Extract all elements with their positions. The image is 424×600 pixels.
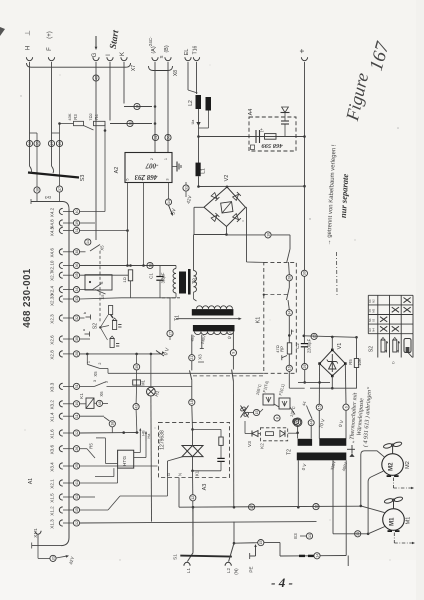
capacitor C2 (301, 343, 308, 345)
wire branch F down (59, 124, 61, 187)
wire hook to circle X1.4 (63, 415, 73, 417)
svg-text:X3.6: X3.6 (50, 445, 55, 455)
wire row X3.4 right (80, 465, 158, 467)
svg-text:17: 17 (250, 505, 254, 509)
terminal L1 (184, 562, 190, 565)
wire row X2.1 right (80, 482, 118, 484)
wire pin4 down (143, 183, 145, 266)
junction R4 elbow (104, 129, 107, 132)
long wire to K1 box (108, 372, 264, 374)
collector arc to bus (63, 202, 69, 210)
K1 contact 1 (287, 249, 290, 262)
circle 31 (183, 185, 189, 191)
svg-text:X4.5: X4.5 (50, 226, 55, 236)
svg-text:468 230-001: 468 230-001 (22, 268, 33, 328)
svg-text:R5: R5 (348, 359, 353, 365)
svg-text:⊥: ⊥ (25, 30, 32, 36)
wire below C2 (303, 347, 305, 364)
table icon plug 2 (393, 340, 397, 352)
svg-text:10: 10 (75, 402, 79, 406)
terminal circle X3.4 (73, 463, 79, 469)
table X marks (404, 298, 411, 303)
hook X1.6 (59, 430, 62, 436)
wire fan chain (260, 409, 263, 413)
HTG left wire elbow (96, 437, 105, 439)
svg-text:X1.3: X1.3 (50, 519, 55, 529)
resistor R4 (94, 121, 106, 125)
svg-text:1: 1 (105, 381, 109, 383)
terminal circle on F branch (56, 140, 62, 146)
T3 core bar thick (179, 272, 186, 294)
svg-text:S1: S1 (173, 554, 178, 560)
capacitor in A4 (255, 130, 257, 143)
svg-text:35: 35 (35, 142, 39, 146)
wire row X4.8 right (80, 222, 95, 224)
circle 14 under A2 (165, 199, 171, 205)
svg-text:38: 38 (75, 250, 79, 254)
svg-text:X2.33: X2.33 (50, 294, 55, 306)
flow arrow on L2 wire (196, 122, 200, 126)
gate lead down (167, 461, 169, 476)
T2 primary bar right (319, 438, 346, 446)
V1 corner squares (318, 362, 321, 365)
tap line to T2 (320, 555, 346, 557)
slant row X1.2 up (108, 496, 120, 510)
tap 230V stub (201, 335, 203, 349)
junction right pole bottom (233, 506, 236, 509)
svg-text:T2: T2 (287, 449, 293, 455)
circle 42 (133, 404, 139, 410)
wire branch H down (36, 133, 38, 187)
wire hook to circle X2.33 (63, 298, 73, 300)
wire I down (109, 62, 111, 121)
S2 hub (99, 326, 101, 328)
wire to circle 20 (38, 557, 50, 559)
svg-text:M3: M3 (372, 308, 376, 312)
hook X4.5 (59, 227, 62, 233)
terminal circle X1.6 (73, 430, 79, 436)
svg-text:(+): (+) (47, 31, 53, 39)
circle 23 on I wire (127, 120, 133, 126)
start direction arrow (95, 36, 97, 48)
svg-text:A1: A1 (28, 478, 34, 484)
svg-text:K1: K1 (256, 317, 262, 324)
wire M1 return diag (368, 527, 385, 534)
lower rail right b (298, 381, 330, 383)
choke L2 core bar 2 (206, 97, 212, 111)
wire V2 top rail (199, 185, 305, 187)
terminal circle X3.6 (73, 446, 79, 452)
arrow HB (139, 430, 141, 439)
dot in relay box (89, 281, 91, 283)
left bus vertical (68, 209, 70, 538)
junction plus rail (303, 185, 306, 188)
wire T3 right top (193, 235, 195, 271)
svg-text:£43: £43 (45, 196, 51, 200)
K1 wire 2 (288, 281, 290, 288)
circle 18 mid-left (109, 421, 115, 427)
hook X2.7 (59, 272, 62, 278)
svg-text:40: 40 (94, 76, 98, 80)
svg-text:26: 26 (58, 142, 62, 146)
hook X2.3 (59, 315, 62, 321)
wire V1 top stub (331, 337, 333, 350)
wire X6 to T1 (107, 385, 193, 387)
wire row X4.5 right (80, 230, 128, 232)
hook X2.33 (59, 296, 62, 302)
svg-text:39: 39 (75, 221, 79, 225)
svg-text:X6: X6 (99, 391, 104, 397)
junction pin4 rail (142, 264, 145, 267)
resistor R3 (74, 121, 84, 125)
tick at left end (31, 543, 33, 549)
wire V2 left corner (194, 206, 204, 208)
wire row X4.2 right (80, 211, 105, 213)
K1 wire 5 (288, 354, 290, 365)
svg-text:20: 20 (51, 556, 55, 560)
table icon socket (404, 339, 411, 353)
svg-text:X1.5: X1.5 (50, 493, 55, 503)
circle 34 K1 chain (286, 310, 292, 316)
wire hook to circle X2.1 (63, 482, 73, 484)
svg-text:37: 37 (58, 187, 62, 191)
wire V2 left down (193, 207, 195, 234)
neutral jumper (233, 522, 235, 544)
terminal H (26, 57, 32, 60)
bottom rail of block (122, 297, 177, 299)
wire coil right (94, 402, 96, 404)
terminal circle X1.5 (73, 494, 79, 500)
junction top rail b (135, 353, 138, 356)
resistor R5 bridge (354, 359, 358, 368)
contact row X4.6 (90, 245, 100, 252)
wire X1.1 down (37, 534, 39, 546)
svg-text:34: 34 (75, 288, 79, 292)
svg-text:3: 3 (166, 178, 170, 180)
tap line bottom (280, 555, 314, 557)
wire pin5 down (127, 183, 129, 266)
circle 10 (265, 232, 271, 238)
circle row X4.6 aux (85, 239, 91, 245)
svg-text:12: 12 (75, 521, 79, 525)
wire row X2.10 rail (80, 265, 176, 267)
wire V2 right down (246, 207, 248, 262)
svg-text:6: 6 (344, 406, 348, 408)
circle below S3 left (34, 187, 40, 193)
circle 50 on B wire (165, 134, 171, 140)
circle 15 at 70V (316, 404, 322, 410)
V2 diode TR (232, 192, 240, 200)
X5 out corner (107, 369, 109, 374)
aux relay drop2 (136, 370, 138, 380)
T3 winding right (194, 271, 197, 276)
coil diagonal (86, 398, 94, 408)
V2 diode BL (211, 213, 219, 221)
wire circle48 right (103, 402, 108, 404)
triac through wire (192, 429, 194, 445)
leader dash-dot of note (336, 252, 339, 295)
svg-text:30: 30 (75, 337, 79, 341)
svg-text:33: 33 (356, 532, 360, 536)
svg-text:34: 34 (288, 311, 292, 315)
T1 arrow line (176, 318, 239, 320)
S2 plug 2 tip (113, 318, 117, 321)
mains line 1 corner up (178, 478, 180, 508)
svg-text:16: 16 (288, 366, 292, 370)
svg-text:12: 12 (191, 496, 195, 500)
wire 16 junction (290, 432, 298, 434)
terminal circle X2.6 (73, 336, 79, 342)
contact below relay box (95, 290, 106, 295)
svg-text:PE: PE (249, 566, 254, 572)
aux relay drop3 (135, 385, 138, 403)
svg-text:A4: A4 (248, 109, 254, 116)
X3 tick (198, 361, 204, 363)
wire V2 bottom rail (194, 234, 227, 236)
wire T3 left top (175, 266, 177, 269)
wire V3 to K2 (258, 433, 260, 435)
slant to circle 18 (104, 417, 110, 421)
circle 38 T2 (293, 418, 299, 424)
F1 symbol (266, 397, 271, 402)
arrow Ha (145, 433, 147, 442)
hook X1.2 (59, 507, 62, 513)
junction K2 net (296, 432, 299, 435)
motor M2 brushes (387, 475, 392, 477)
thermal switch F1 (263, 394, 274, 405)
svg-text:V2: V2 (224, 175, 230, 182)
junction V1 bottom (331, 387, 334, 390)
terminal I (107, 57, 113, 60)
svg-text:HTG: HTG (122, 456, 128, 466)
collector tick (30, 199, 32, 204)
K1 wire (288, 262, 291, 275)
wire row X1.6 right (80, 432, 139, 435)
wire pin3 down (168, 183, 170, 199)
cable dashes bottom (299, 555, 305, 557)
svg-text:40: 40 (75, 210, 79, 214)
snubber down 3 (220, 461, 222, 470)
PE symbol (255, 546, 257, 556)
svg-text:36: 36 (75, 264, 79, 268)
svg-text:E3: E3 (293, 533, 298, 539)
wire below circle29 (304, 370, 306, 383)
stub circle18 down (111, 427, 113, 433)
svg-text:18: 18 (190, 400, 194, 404)
wire hook to circle X1.5 (63, 496, 73, 498)
hook X1.3 (59, 520, 62, 526)
wire below S3 left (36, 193, 38, 201)
T2 sec tap 0V (297, 460, 299, 507)
wire circle27 up (169, 298, 171, 331)
resistor in A4 (265, 134, 277, 140)
K1 contact 2 (287, 288, 290, 301)
svg-text:10K: 10K (357, 358, 362, 366)
wire T3 left bottom (175, 293, 177, 298)
V2 center varistor (221, 202, 233, 213)
wire M2 feed up (360, 455, 362, 506)
S2 plug position 1 (109, 306, 113, 315)
svg-text:G: G (166, 473, 171, 476)
S2 plug 1 pin (111, 315, 113, 319)
svg-text:41: 41 (75, 481, 79, 485)
motor M2 linkage (392, 478, 394, 489)
svg-text:X1.6: X1.6 (50, 429, 55, 439)
hook X2.6 (59, 336, 62, 342)
tap stub tick (200, 348, 204, 350)
svg-text:24: 24 (135, 105, 139, 109)
svg-text:X4.6: X4.6 (50, 248, 55, 258)
dashed box K2 (260, 428, 287, 441)
wire row X2.4 right (80, 289, 93, 291)
terminal circle on H (26, 140, 32, 146)
HTG box (118, 450, 134, 468)
svg-text:29: 29 (303, 365, 307, 369)
circle 16 bold (294, 419, 300, 425)
svg-text:S: S (159, 55, 164, 58)
wire V3 left (245, 433, 252, 435)
wire I to A (110, 123, 152, 125)
V2 diode BR (232, 213, 240, 221)
svg-text:7Ω2: 7Ω2 (88, 112, 93, 120)
svg-text:(A): (A) (151, 46, 157, 54)
svg-text:X4.2: X4.2 (50, 207, 55, 217)
junction neutral tap (233, 542, 236, 545)
X5 contact (87, 364, 100, 368)
svg-text:1: 1 (164, 158, 168, 160)
S3 contact hook F (52, 166, 54, 173)
wire V3 up (244, 421, 246, 434)
svg-text:X7: X7 (131, 65, 137, 71)
wire F2 out (290, 407, 295, 415)
wire L2 down (198, 109, 200, 163)
svg-text:28: 28 (288, 276, 292, 280)
wire R3 to R4 slant (84, 126, 94, 131)
svg-text:18: 18 (111, 422, 115, 426)
dashed box K1 (264, 262, 297, 373)
wire gate up (167, 476, 169, 496)
junction I-A (154, 122, 157, 125)
svg-text:03: 03 (372, 318, 376, 322)
svg-text:44: 44 (310, 421, 314, 425)
hook X3.6 (59, 446, 62, 452)
junction lower rail (303, 381, 306, 384)
svg-text:V1: V1 (337, 343, 343, 350)
svg-text:48: 48 (98, 401, 102, 405)
svg-text:15: 15 (75, 508, 79, 512)
wire 0V down (345, 410, 347, 438)
wire V2 bottom to circle10 (227, 234, 265, 236)
S1 pole drop (192, 507, 194, 553)
svg-text:b: b (83, 312, 87, 314)
T1 core bar bottom (193, 325, 235, 331)
choke L2 core bar 1 (196, 95, 202, 109)
wire row X3.2 right (80, 403, 86, 405)
svg-text:R4: R4 (94, 114, 99, 120)
svg-text:L2: L2 (226, 568, 231, 574)
svg-text:12: 12 (314, 505, 318, 509)
wire hook to circle X3.3 (63, 385, 73, 387)
svg-text:H: H (26, 46, 32, 50)
circle 33 (355, 531, 361, 537)
wire row X2.7 right (80, 274, 128, 276)
svg-text:14: 14 (86, 240, 90, 244)
wire M2 return corner (368, 471, 383, 481)
hook X3.3 (59, 383, 62, 389)
wire hook to circle X4.8 (63, 222, 73, 224)
svg-text:5: 5 (126, 178, 130, 180)
junction R1 top (129, 264, 132, 267)
wire to gate (120, 495, 168, 497)
svg-text:(+: (+ (259, 128, 264, 132)
wire row X2.33 rail (80, 298, 122, 299)
svg-text:47Ω: 47Ω (275, 345, 280, 353)
junction left at lower rail (318, 381, 321, 384)
arrow a at S2 (86, 316, 91, 318)
K1 wire 4 (288, 316, 290, 343)
wire V1 feed (304, 336, 357, 338)
wire EL down (187, 62, 189, 90)
gate lead (168, 457, 184, 461)
K1 wire 3 (288, 300, 289, 310)
wire M2 feed corner (361, 451, 385, 457)
F2 symbol (282, 401, 287, 406)
terminal circle on F (48, 140, 54, 146)
wire hook to circle X1.2 (63, 509, 73, 511)
svg-text:C2: C2 (295, 343, 300, 349)
contact 44 stub up (307, 406, 309, 412)
svg-text:X2.10: X2.10 (50, 260, 55, 272)
resistor 1 ohm (128, 270, 132, 281)
b tap tick (291, 330, 293, 335)
svg-text:K: K (120, 52, 126, 56)
wire circle27 stub (169, 337, 171, 340)
thermal switch F2 (279, 398, 290, 409)
ground symbol A4 (281, 112, 290, 114)
T2 ground (347, 448, 355, 450)
wire 44 down (310, 426, 312, 439)
wire V1 bottom rail (310, 387, 357, 389)
0V arrow (160, 351, 164, 355)
wire Ha down (145, 441, 147, 458)
wire circle21 down (191, 361, 193, 371)
circle 44 (308, 420, 314, 426)
relay coil K1 (86, 398, 94, 408)
table icon plug 1 (381, 340, 385, 352)
connector bracket X8 (149, 66, 173, 71)
switch contact left pole (190, 370, 192, 380)
terminal EL (185, 57, 191, 60)
terminal G (93, 57, 99, 60)
hook X4.8 (59, 220, 62, 226)
svg-text:F: F (47, 47, 53, 51)
svg-text:14: 14 (167, 200, 171, 204)
svg-text:-007: -007 (145, 162, 158, 170)
wire A down (154, 62, 156, 153)
motor M1 fan (384, 496, 403, 508)
svg-text:N: N (178, 473, 183, 476)
svg-text:·24C·: ·24C· (148, 36, 153, 47)
T3 winding left (173, 269, 176, 274)
terminal F (48, 57, 54, 60)
wire hook to circle X4.6 (63, 251, 73, 253)
T2 primary bar left (298, 439, 313, 446)
svg-text:S2: S2 (93, 323, 99, 329)
svg-text:21: 21 (190, 356, 194, 360)
svg-text:A2: A2 (114, 167, 120, 174)
wire V1 left down (318, 364, 320, 405)
circle 16 bold ring (293, 418, 302, 427)
